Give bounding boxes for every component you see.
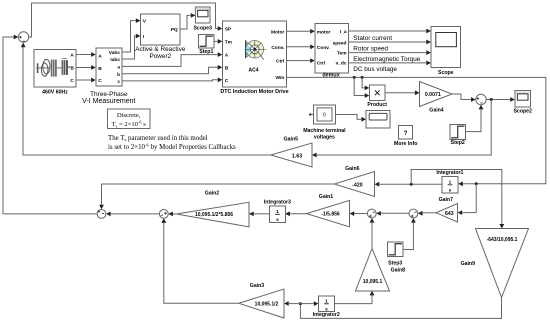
svg-text:C: C: [98, 78, 102, 84]
wire demux speed to Scope (Rotor speed): [349, 41, 427, 43]
junction on Wm wire at Product tap 2: [361, 76, 364, 79]
wire Power2 PQ to Scope3: [180, 15, 191, 29]
wire b to AC4 B input: [122, 67, 218, 74]
svg-text:More Info: More Info: [394, 141, 417, 147]
block More Info: [399, 126, 413, 140]
svg-text:Ts = 2×10-6 s: Ts = 2×10-6 s: [112, 119, 147, 128]
svg-text:-643/10,095.1: -643/10,095.1: [487, 237, 518, 243]
svg-text:0.0071: 0.0071: [425, 92, 441, 98]
integrator block Integrator1: [442, 177, 458, 194]
svg-text:A: A: [98, 53, 102, 59]
wire Sum2b output to Sum2a right input: [111, 213, 160, 215]
sum block Sum3a: [367, 209, 376, 218]
svg-text:A: A: [70, 53, 74, 59]
svg-text:Iabc: Iabc: [110, 57, 120, 63]
integrator block Integrator3: [270, 206, 286, 223]
svg-text:Wm: Wm: [276, 75, 285, 81]
wire Sum0 output to AC4 SP port: [29, 3, 218, 37]
svg-text:Three-Phase: Three-Phase: [90, 91, 128, 98]
svg-text:Integrator3: Integrator3: [264, 199, 291, 205]
block Three-Phase V-I Measurement: [96, 48, 122, 86]
svg-text:Step1: Step1: [199, 49, 213, 55]
svg-text:Active & Reactive: Active & Reactive: [135, 46, 186, 53]
wire AC4 Conv to demux: [287, 46, 311, 48]
svg-text:Power2: Power2: [149, 53, 171, 60]
wire Wm tap to Product lower input: [354, 77, 364, 95]
product block Product: [370, 85, 386, 101]
step source block Step2: [450, 125, 466, 140]
svg-text:1: 1: [449, 180, 452, 186]
demux block: [315, 24, 349, 74]
gain block Gain1: [307, 200, 350, 226]
sum block Sum2b: [159, 210, 168, 219]
wire Gain9 output to bottom node: [300, 298, 501, 319]
junction at bottom node: [299, 302, 302, 305]
gain block Gain3: [239, 289, 284, 318]
wire Sum1 output branch down to Gain5 input: [317, 100, 492, 156]
scope block Scope3: [195, 7, 210, 23]
svg-text:Gain7: Gain7: [439, 197, 454, 203]
svg-text:Tm: Tm: [225, 40, 232, 46]
wire bottom node to Integrator2 input: [300, 303, 313, 305]
svg-text:Gain3: Gain3: [250, 283, 265, 289]
svg-text:Integrator1: Integrator1: [436, 170, 463, 176]
svg-text:Gain4: Gain4: [429, 108, 444, 114]
wire Gain3 output to Sum2b bottom input: [164, 223, 239, 303]
gain block Gain2: [176, 202, 249, 227]
svg-text:speed: speed: [333, 40, 347, 46]
svg-text:-420: -420: [352, 182, 362, 188]
wire Gain1 output to Integrator3 input: [290, 213, 307, 215]
sum block Sum2a: [97, 210, 106, 219]
svg-text:Machine terminal: Machine terminal: [303, 128, 346, 134]
block AC4 DTC Induction Motor Drive: [223, 21, 287, 87]
svg-text:v_dc: v_dc: [336, 61, 347, 67]
wire a to AC4 A input: [122, 55, 218, 67]
svg-text:Integrator2: Integrator2: [313, 312, 340, 318]
svg-text:Step3: Step3: [388, 261, 402, 267]
svg-text:SP: SP: [225, 27, 232, 33]
scope block Scope2: [515, 91, 531, 108]
label of Machine terminal voltages: [303, 128, 346, 141]
annotation text about Ts parameter: [108, 135, 236, 151]
wire Product to Gain4: [385, 92, 415, 94]
annotation box Discrete Ts: [108, 109, 151, 129]
junction on Integrator1 output wire: [410, 183, 413, 186]
scope block Scope: [431, 27, 461, 68]
svg-text:Gain1: Gain1: [319, 194, 334, 200]
wire source A to measurement A: [76, 54, 91, 56]
svg-text:Ctrl: Ctrl: [317, 61, 325, 67]
sum block Sum1: [476, 94, 486, 104]
display block: [366, 111, 390, 129]
wire Integrator1 output to Gain6 input: [379, 183, 442, 185]
wire Step1 to AC4 Tm port: [214, 40, 218, 42]
svg-text:voltages: voltages: [314, 135, 335, 141]
svg-text:B: B: [98, 66, 102, 72]
sum block Sum0 (speed reference): [18, 32, 28, 42]
input stub of Machine terminal voltages: [310, 114, 314, 116]
svg-text:The Ts parameter used in this: The Ts parameter used in this model: [108, 135, 208, 142]
svg-text:Tem: Tem: [337, 51, 347, 57]
svg-text:Scope: Scope: [438, 70, 454, 76]
wire AC4 Motor to demux: [287, 30, 311, 32]
label of Power2 block: [135, 46, 186, 60]
wire Iabc to Power2 I input: [122, 36, 136, 59]
wire source B to measurement B: [76, 67, 91, 69]
svg-text:Scope2: Scope2: [513, 108, 532, 114]
wire Gain4 to Sum1 left input: [452, 94, 471, 100]
svg-text:460V 60Hz: 460V 60Hz: [42, 89, 68, 95]
svg-text:-1/5.856: -1/5.856: [321, 212, 340, 218]
gain block Gain4: [420, 82, 453, 107]
sum block Sum3b: [409, 209, 418, 218]
wire c to AC4 C input: [122, 80, 218, 81]
svg-text:demux: demux: [322, 72, 339, 78]
svg-text:Gain8: Gain8: [391, 267, 406, 273]
wire Integrator1 output branch to Gain9 input: [411, 170, 502, 224]
integrator block Integrator2: [319, 296, 335, 312]
svg-text:I_a: I_a: [340, 29, 347, 35]
svg-text:Gain6: Gain6: [345, 166, 360, 172]
svg-text:B: B: [225, 65, 229, 71]
svg-text:s: s: [449, 189, 452, 194]
gain block Gain8 (pointing up): [356, 249, 390, 292]
svg-text:DTC Induction Motor Drive: DTC Induction Motor Drive: [220, 89, 288, 95]
step source block Step1: [199, 35, 215, 49]
junction on Wm wire at Product tap 1: [353, 76, 356, 79]
svg-text:PQ: PQ: [171, 27, 178, 33]
svg-text:C: C: [225, 78, 229, 84]
svg-text:1: 1: [325, 299, 328, 305]
svg-text:Discrete,: Discrete,: [117, 112, 141, 119]
svg-text:AC4: AC4: [248, 68, 258, 74]
svg-text:is set to 2×10-6 by Model Prop: is set to 2×10-6 by Model Properties Cal…: [108, 143, 236, 152]
svg-text:s: s: [276, 218, 279, 223]
step source block Step3: [388, 242, 404, 257]
gain block Gain9 (pointing down): [476, 229, 529, 298]
wire Sum3b output to Sum3a right input: [381, 212, 409, 214]
svg-text:B: B: [70, 66, 74, 72]
wire Vabc to Power2 V input: [122, 21, 136, 52]
wire Wm tap to Product upper input: [362, 77, 365, 88]
wire Sum2a output to Sum0 left input (left-edge feedback): [3, 37, 97, 214]
svg-text:Stator current: Stator current: [353, 35, 392, 42]
svg-text:10,095.1/2*5.856: 10,095.1/2*5.856: [195, 212, 233, 218]
wire AC4 Ctrl to demux: [287, 60, 311, 62]
svg-text:Gain9: Gain9: [461, 261, 476, 267]
svg-text:C: C: [70, 78, 74, 84]
svg-text:b: b: [117, 72, 120, 78]
wire feedback tap to Gain7 input: [462, 184, 476, 213]
svg-text:1.63: 1.63: [292, 153, 303, 159]
block Active & Reactive Power2: [141, 14, 181, 45]
wire bottom node to Gain3 input: [289, 303, 301, 305]
svg-text:Gain5: Gain5: [284, 137, 299, 143]
svg-text:Vabc: Vabc: [109, 50, 121, 56]
source block 460V 60Hz: [34, 50, 76, 88]
wire Machine terminal voltages to Display: [336, 115, 362, 120]
wire Integrator3 output to Gain2 input: [254, 213, 270, 215]
svg-text:DC bus voltage: DC bus voltage: [353, 66, 397, 73]
wire Step3 output to Sum3b bottom input: [403, 223, 414, 250]
wire Gain7 output to Sum3b right input: [423, 212, 436, 214]
gain block Gain5: [271, 143, 312, 167]
svg-text:Rotor speed: Rotor speed: [353, 46, 388, 53]
wire source C to measurement C: [76, 79, 91, 81]
svg-text:Gain2: Gain2: [205, 190, 220, 196]
svg-text:?: ?: [404, 130, 408, 137]
block Machine terminal voltages: [314, 105, 336, 124]
svg-text:A: A: [225, 53, 229, 59]
svg-text:Ctrl: Ctrl: [276, 59, 284, 65]
svg-text:10,095.1: 10,095.1: [363, 279, 383, 285]
svg-text:Step2: Step2: [451, 140, 465, 146]
wire Integrator2 output to Gain8 input: [335, 296, 373, 304]
svg-text:Conv.: Conv.: [271, 45, 284, 51]
wire Gain6 output to Sum2a top input: [102, 184, 335, 205]
svg-text:Motor: Motor: [271, 29, 284, 35]
svg-text:643: 643: [445, 211, 454, 217]
svg-text:motor: motor: [317, 29, 331, 35]
junction on Integrator1 input wire to Gain7: [475, 182, 478, 185]
wire Gain5 output to Sum0 bottom input: [23, 47, 271, 155]
junction on Sum1 output wire: [490, 98, 493, 101]
svg-text:Conv.: Conv.: [317, 45, 330, 51]
wire AC4 Wm to Integrator1 input (right-edge feedback): [287, 77, 546, 183]
svg-text:0: 0: [323, 113, 326, 119]
icon of AC4 motor drive: [245, 40, 267, 73]
label of measurement block: [82, 91, 135, 105]
svg-text:a: a: [117, 66, 120, 71]
wire demux I_a to Scope (Stator current): [349, 30, 427, 32]
svg-text:Scope3: Scope3: [193, 25, 212, 31]
wire Gain8 output to Sum3a bottom input: [371, 223, 373, 249]
gain block Gain7: [436, 204, 458, 223]
svg-text:Electromagnetic Torque: Electromagnetic Torque: [353, 56, 420, 63]
wire demux v_dc to Scope (DC bus voltage): [349, 62, 427, 64]
svg-text:10,095.1/2: 10,095.1/2: [255, 302, 279, 308]
wire Gain2 output to Sum2b right input: [173, 213, 176, 215]
svg-text:V-I Measurement: V-I Measurement: [82, 98, 135, 105]
wire Step2 to Sum1 bottom input: [466, 110, 482, 132]
wire Sum3a output to Gain1 input: [354, 213, 367, 215]
svg-text:c: c: [117, 80, 120, 85]
wire demux Tem to Scope (Electromagnetic Torque): [349, 52, 427, 54]
svg-text:Product: Product: [367, 102, 387, 108]
gain block Gain6: [334, 172, 374, 197]
svg-text:1: 1: [276, 209, 279, 215]
wire Sum1 output to Scope2: [486, 99, 510, 101]
